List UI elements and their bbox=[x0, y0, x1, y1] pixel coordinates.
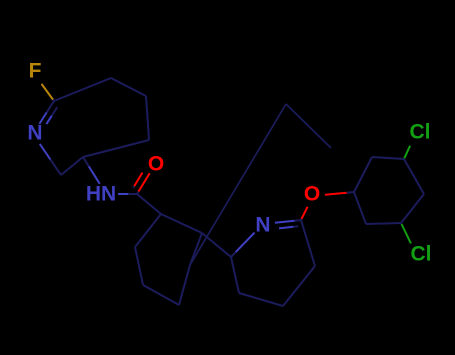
bond C3-C2 ring1 bbox=[61, 157, 83, 175]
bond C3-C4 pyridine2 bbox=[283, 266, 315, 306]
bond C5-C6 ring3 bbox=[372, 157, 404, 159]
bond C3b-C3 ring1 bbox=[83, 140, 149, 157]
svg-text:F: F bbox=[29, 60, 42, 83]
bond E-D benzene bbox=[179, 265, 190, 305]
double bond N2=C2 pyridine2 bbox=[275, 220, 301, 228]
bond V-E benzene bbox=[190, 233, 202, 265]
svg-text:Cl: Cl bbox=[411, 243, 432, 266]
svg-text:O: O bbox=[304, 183, 320, 206]
bond E-G2 chain bbox=[190, 104, 286, 265]
bond C4-C5 pyridine2 bbox=[239, 293, 283, 306]
bond C6-C5 ring1 bbox=[54, 78, 111, 101]
bond C2-C3 ring3 bbox=[366, 223, 401, 224]
bond V-C6 biaryl link bbox=[202, 233, 231, 257]
bond C6-C1 ring3 bbox=[354, 157, 372, 192]
svg-text:Cl: Cl bbox=[410, 121, 431, 144]
bond C5-C6 pyridine2 bbox=[231, 257, 239, 293]
bond O-C2 ether bbox=[301, 207, 308, 220]
bond C3-NH amide bbox=[83, 157, 100, 184]
bond Cl-C5 ring3 top bbox=[404, 146, 410, 159]
bond C-B benzene bbox=[135, 247, 143, 285]
bond C4-C5 ring3 bbox=[404, 159, 424, 194]
bond G2-G3 chain bbox=[286, 104, 331, 148]
svg-text:N: N bbox=[255, 214, 270, 237]
bond C5-C4 ring1 bbox=[111, 78, 146, 96]
bond C(=O)-C1 benzene bbox=[137, 194, 161, 214]
bond C1-C2 ring3 bbox=[354, 192, 366, 224]
bond O-C1 ether bbox=[325, 192, 354, 195]
bond D-C benzene bbox=[143, 285, 179, 305]
bond C2-C3 pyridine2 bbox=[301, 220, 315, 266]
svg-text:O: O bbox=[148, 153, 164, 176]
bond N1-C2 ring1 bbox=[40, 144, 61, 175]
bond N2-C6 pyridine2 bbox=[231, 233, 255, 257]
svg-text:HN: HN bbox=[86, 183, 116, 206]
bond F-C6 fluorine bbox=[42, 84, 55, 101]
bond C3-C4 ring3 bbox=[401, 194, 424, 223]
bond HN-C carbonyl bbox=[118, 193, 137, 195]
bond Cl-C3 ring3 bottom bbox=[401, 223, 411, 243]
double bond C=O bbox=[133, 173, 150, 195]
bond C4-C3b ring1 bbox=[146, 96, 149, 140]
svg-text:N: N bbox=[27, 122, 42, 145]
bond B-C1 benzene bbox=[135, 214, 161, 247]
bond C1-V benzene bbox=[161, 214, 202, 233]
double bond N1=C6 pyridine1 bbox=[39, 101, 57, 124]
